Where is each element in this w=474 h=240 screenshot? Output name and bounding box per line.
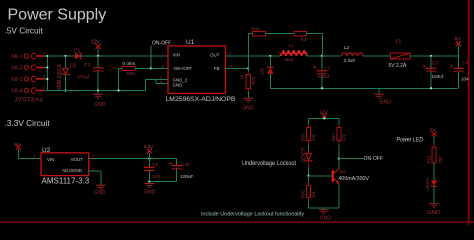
node C1 gnd junction — [97, 89, 99, 91]
capacitor C4 104 — [450, 56, 469, 88]
inductor L2 3.3uh — [342, 45, 364, 63]
svg-text:GND: GND — [242, 106, 254, 112]
svg-text:220uf: 220uf — [318, 74, 330, 79]
wire connector stubs — [45, 56, 48, 91]
capacitor C5 104 — [144, 158, 160, 181]
svg-text:SMBJ26CA: SMBJ26CA — [57, 63, 63, 90]
svg-text:230: 230 — [438, 156, 443, 164]
svg-text:FB: FB — [214, 66, 220, 71]
wire F1 to 5V node — [410, 55, 458, 57]
power 12V UVLO — [320, 109, 329, 118]
svg-text:GND: GND — [94, 190, 106, 196]
wire U2 ADJ pin — [89, 171, 101, 185]
svg-text:U1: U1 — [186, 39, 195, 46]
ground under C5 — [144, 182, 156, 196]
section label 5V Circuit — [5, 26, 44, 36]
svg-text:R49: R49 — [251, 27, 260, 32]
node bus junctions — [46, 55, 48, 80]
svg-text:GND: GND — [173, 83, 183, 88]
wire D2 branch upper — [65, 56, 67, 68]
svg-text:400mA/300V: 400mA/300V — [339, 176, 370, 182]
svg-text:68uf: 68uf — [285, 57, 295, 62]
svg-text:D1: D1 — [74, 49, 81, 55]
svg-text:5V: 5V — [455, 36, 462, 41]
svg-text:X8-2: X8-2 — [11, 66, 23, 72]
pin numbers U2 — [33, 154, 95, 172]
svg-text:12V: 12V — [320, 109, 329, 114]
wire L1 to L2 — [307, 55, 341, 57]
svg-text:JVST3A4: JVST3A4 — [14, 98, 44, 104]
svg-text:VIN: VIN — [47, 157, 54, 162]
node C3 junction — [430, 55, 432, 57]
wire feedback tap down — [321, 34, 323, 56]
resistor R26 1k (FB to gnd) — [240, 68, 256, 98]
svg-text:R2: R2 — [301, 37, 307, 42]
transistor Q2 — [332, 159, 370, 208]
svg-text:100uf: 100uf — [432, 74, 444, 79]
label Power LED — [397, 138, 424, 144]
svg-text:VIN: VIN — [173, 52, 180, 57]
svg-text:OUT: OUT — [210, 52, 220, 57]
svg-text:GND: GND — [380, 100, 392, 106]
wire FB up — [247, 34, 249, 69]
connector X8-1 — [11, 52, 45, 61]
resistor R2 — [294, 32, 323, 42]
inductor L1 68uf — [278, 43, 308, 62]
wire U1 OUT rail — [225, 55, 280, 57]
svg-text:LED05: LED05 — [425, 178, 430, 191]
sheet border right — [468, 0, 470, 225]
ground under R26 — [242, 98, 254, 111]
wire base to Q2 — [309, 175, 332, 177]
svg-text:ADJ/GND: ADJ/GND — [62, 168, 82, 173]
svg-text:104: 104 — [152, 174, 160, 179]
svg-text:C4: C4 — [462, 61, 468, 66]
svg-text:ON-OFF: ON-OFF — [364, 156, 384, 162]
svg-text:Undervoltage Lockout: Undervoltage Lockout — [242, 161, 296, 167]
node ON-OFF junction — [338, 157, 340, 159]
ground output rail — [374, 88, 391, 105]
svg-text:VOUT: VOUT — [71, 157, 84, 162]
wire UVLO bottom rail — [309, 207, 339, 209]
op-amp U1 regulator box — [166, 39, 236, 103]
svg-text:D2: D2 — [70, 64, 77, 70]
svg-text:1: 1 — [306, 52, 308, 56]
ground LED — [427, 204, 440, 216]
section label 3.3V Circuit — [5, 118, 51, 128]
svg-text:470uf: 470uf — [77, 75, 90, 81]
svg-text:R56: R56 — [301, 190, 306, 198]
connector X8-4 — [11, 86, 45, 95]
svg-text:2: 2 — [278, 52, 280, 56]
svg-text:Q2: Q2 — [340, 169, 347, 174]
connector X8-2 — [11, 63, 45, 72]
svg-text:GND: GND — [320, 215, 332, 221]
capacitor C35 100uF — [170, 158, 194, 181]
pin numbers U1 right — [229, 51, 233, 69]
net label ON-OFF (U1) — [150, 41, 171, 70]
power 3.3V — [144, 144, 154, 158]
capacitor C2 220uf — [314, 56, 331, 88]
label Undervoltage Lockout — [242, 161, 296, 167]
resistor R50 0 ohm — [119, 61, 152, 76]
wire output ground rail — [270, 87, 457, 89]
svg-text:GND: GND — [427, 210, 440, 216]
svg-text:AMS1117-3.3: AMS1117-3.3 — [42, 177, 90, 186]
svg-text:3.3uh: 3.3uh — [344, 58, 356, 63]
resistor R55 10k — [301, 118, 317, 150]
node 3.3V junction — [148, 157, 150, 159]
svg-text:GND: GND — [144, 189, 156, 195]
wire C35 gnd return — [149, 181, 176, 183]
svg-text:1: 1 — [43, 52, 45, 56]
svg-text:5V 2.2A: 5V 2.2A — [389, 63, 407, 69]
svg-text:F1: F1 — [396, 40, 402, 46]
svg-text:Power Supply: Power Supply — [8, 6, 107, 23]
wire top rail to D1 — [47, 55, 75, 57]
svg-text:R57: R57 — [331, 133, 336, 141]
ground UVLO — [319, 208, 331, 221]
node C5 gnd junction — [148, 181, 150, 183]
wire input bus vertical — [46, 56, 48, 91]
node C3 gnd junction — [430, 87, 432, 89]
resistor R18 230 — [427, 145, 444, 181]
sheet border bottom — [0, 221, 474, 223]
svg-text:2: 2 — [43, 63, 45, 67]
wire input ground rail — [47, 90, 145, 92]
svg-text:R55: R55 — [301, 133, 306, 141]
diode D3 — [260, 56, 274, 88]
LED LED05 — [425, 178, 437, 204]
svg-text:10k: 10k — [311, 190, 316, 198]
svg-text:R18: R18 — [427, 155, 432, 163]
svg-text:LM2596SX-ADJ/NOPB: LM2596SX-ADJ/NOPB — [166, 96, 236, 103]
power 5V input U2 — [15, 142, 42, 159]
node C2 gnd junction — [321, 87, 323, 89]
svg-text:3.3V: 3.3V — [144, 144, 154, 149]
svg-text:C3: C3 — [432, 61, 438, 66]
wire FB line — [225, 67, 248, 69]
note Include Undervoltage Lockout functionality — [201, 212, 304, 218]
svg-text:-ON-/OFF: -ON-/OFF — [173, 66, 193, 71]
pin numbers U1 left — [160, 51, 165, 85]
node D3 junction — [269, 55, 271, 57]
node C2 feedback junction — [321, 55, 323, 57]
connector X8-3 — [11, 75, 45, 84]
capacitor C1 470uf — [77, 56, 104, 91]
diode zener UVLO — [300, 148, 312, 176]
svg-text:3: 3 — [43, 75, 45, 79]
svg-text:C35: C35 — [181, 162, 190, 167]
svg-text:D3: D3 — [260, 68, 266, 74]
ground under C1 — [93, 91, 106, 108]
power 12V input — [91, 40, 101, 58]
wire L2 to F1 — [363, 55, 391, 57]
wire U2 VOUT rail — [89, 157, 177, 159]
svg-text:Include Undervoltage Lockout f: Include Undervoltage Lockout functionali… — [201, 212, 304, 218]
svg-text:104: 104 — [461, 77, 469, 82]
ground under U2 ADJ — [94, 185, 106, 196]
svg-text:Power LED: Power LED — [397, 138, 424, 144]
svg-text:U2: U2 — [42, 147, 51, 154]
node D2 top junction — [64, 55, 66, 57]
node D2 bottom junction — [64, 89, 66, 91]
svg-text:4: 4 — [43, 86, 45, 90]
svg-text:R50: R50 — [127, 71, 136, 76]
svg-text:0 ohm: 0 ohm — [123, 61, 136, 66]
power 5V output — [455, 36, 462, 56]
fuse F1 — [389, 40, 411, 69]
node FB junction — [247, 67, 249, 69]
svg-text:L1: L1 — [289, 43, 295, 48]
svg-text:C1: C1 — [84, 62, 90, 68]
svg-text:.5V Circuit: .5V Circuit — [5, 26, 44, 36]
svg-text:.3.3V Circuit: .3.3V Circuit — [5, 118, 51, 128]
resistor R49 — [248, 27, 293, 36]
wire D2 branch lower — [65, 75, 67, 91]
svg-text:C5: C5 — [152, 162, 158, 167]
wire R50 to ground rail — [117, 68, 119, 91]
svg-text:100uF: 100uF — [180, 174, 193, 179]
svg-text:GND: GND — [94, 102, 106, 108]
wire U1 gnd pins bracket — [146, 80, 168, 91]
net label ON-OFF — [339, 156, 384, 162]
capacitor C3 100uf — [423, 56, 444, 88]
wire D1 to U1 VIN — [81, 55, 168, 57]
svg-text:R26: R26 — [251, 76, 256, 84]
svg-text:C2: C2 — [325, 66, 331, 71]
connector label JVST3A4 — [14, 98, 44, 104]
resistor R56 10k — [301, 176, 317, 208]
svg-text:10k: 10k — [311, 133, 316, 141]
diode D2 TVS — [57, 63, 77, 90]
power 5V LED — [430, 128, 437, 148]
svg-text:X8-1: X8-1 — [11, 54, 23, 60]
svg-text:47k: 47k — [341, 133, 346, 141]
regulator U2 box — [41, 147, 90, 186]
node zener base junction — [307, 175, 309, 177]
svg-text:X8-3: X8-3 — [11, 77, 23, 83]
title text "Power Supply" — [8, 6, 107, 23]
diode D1 — [74, 49, 81, 60]
wire UVLO top rail — [309, 117, 339, 119]
svg-text:X8-4: X8-4 — [11, 89, 23, 95]
svg-text:ZENER: ZENER — [300, 148, 305, 163]
resistor R57 47k — [331, 118, 347, 158]
svg-text:L2: L2 — [344, 45, 350, 50]
